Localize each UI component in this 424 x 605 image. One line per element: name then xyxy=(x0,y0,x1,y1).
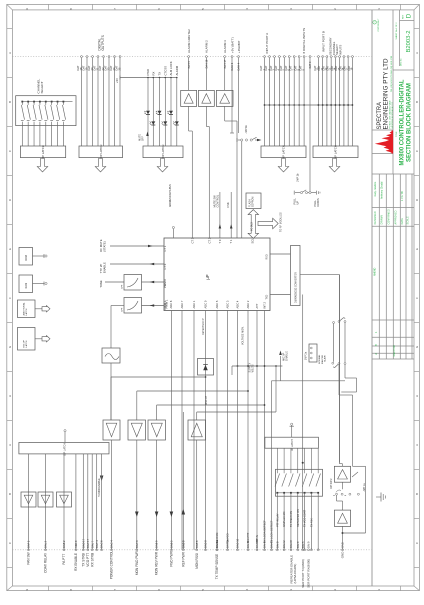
svg-text:DISC I/P: DISC I/P xyxy=(205,395,208,405)
svg-text:WESTERN AUSTRALIA 6155: WESTERN AUSTRALIA 6155 xyxy=(391,101,394,128)
svg-text:FAN SW: FAN SW xyxy=(27,552,31,564)
svg-text:SELECT: SELECT xyxy=(40,81,44,93)
svg-text:TX STRB: TX STRB xyxy=(81,553,85,566)
svg-text:ADC 3: ADC 3 xyxy=(226,300,230,308)
svg-text:DRAWN: DRAWN xyxy=(381,215,384,225)
svg-text:ADC 1: ADC 1 xyxy=(192,300,196,308)
svg-text:DAI 5: DAI 5 xyxy=(301,541,305,548)
svg-text:DAH 3: DAH 3 xyxy=(230,62,234,70)
svg-text:SKD 9: SKD 9 xyxy=(74,540,78,548)
svg-text:8 DIGITAL INPUTS: 8 DIGITAL INPUTS xyxy=(302,28,306,54)
svg-text:JMP 1b: JMP 1b xyxy=(245,124,248,133)
svg-text:ADC 0: ADC 0 xyxy=(204,300,208,308)
svg-text:INPUTS: INPUTS xyxy=(339,45,343,55)
svg-text:T 1: T 1 xyxy=(229,239,233,243)
svg-text:MIC I/P: MIC I/P xyxy=(24,340,26,348)
svg-text:REF PWR: REF PWR xyxy=(181,551,185,566)
svg-text:DAL 7: DAL 7 xyxy=(90,540,94,548)
svg-text:DAC 3: DAC 3 xyxy=(135,540,139,548)
svg-text:F: F xyxy=(415,297,419,299)
svg-text:DAD 16: DAD 16 xyxy=(236,538,240,548)
svg-text:SIMPLEX ON: SIMPLEX ON xyxy=(283,512,286,527)
svg-text:DAH 17: DAH 17 xyxy=(224,59,227,68)
svg-text:H: H xyxy=(8,395,12,397)
svg-text:TX MOD ENABLE: TX MOD ENABLE xyxy=(98,478,101,497)
svg-text:B: B xyxy=(415,101,419,103)
svg-text:CTCSS: CTCSS xyxy=(164,66,168,76)
svg-text:DAI 1a: DAI 1a xyxy=(215,540,219,548)
svg-text:DETECTED I/P: DETECTED I/P xyxy=(202,318,205,335)
svg-text:LATCH: LATCH xyxy=(25,308,28,315)
svg-text:MX800 CONTROLLER-DIGITAL: MX800 CONTROLLER-DIGITAL xyxy=(398,79,405,165)
svg-text:DAF 2: DAF 2 xyxy=(27,540,31,548)
svg-text:ADDRESS/DATA BUS: ADDRESS/DATA BUS xyxy=(169,184,172,207)
svg-text:SER PORT TX(9600): SER PORT TX(9600) xyxy=(301,559,305,588)
svg-text:DESIGNED: DESIGNED xyxy=(374,211,377,224)
svg-text:DAB 2: DAB 2 xyxy=(62,540,66,548)
svg-text:DAC 6: DAC 6 xyxy=(100,540,104,548)
svg-text:A: A xyxy=(415,52,419,54)
svg-text:I/P LATCH: I/P LATCH xyxy=(334,145,338,158)
svg-text:H: H xyxy=(415,395,419,397)
svg-text:ADC 6: ADC 6 xyxy=(169,300,173,308)
svg-text:VCO PTT: VCO PTT xyxy=(86,553,90,567)
svg-text:TX FSK: TX FSK xyxy=(310,518,313,527)
svg-text:FSK: FSK xyxy=(226,202,230,207)
svg-text:B: B xyxy=(8,493,12,495)
svg-text:DAS 16: DAS 16 xyxy=(255,539,259,548)
svg-text:COPYRIGHT: COPYRIGHT xyxy=(378,18,380,32)
svg-text:+5V (BATT): +5V (BATT) xyxy=(230,37,234,53)
svg-text:DAC 4: DAC 4 xyxy=(95,540,99,548)
svg-text:ALARM 2: ALARM 2 xyxy=(205,40,209,53)
svg-text:APPROVED: APPROVED xyxy=(395,210,398,224)
svg-text:OFF: OFF xyxy=(141,136,144,141)
svg-text:µP: µP xyxy=(205,274,210,279)
svg-text:JMP 2a: JMP 2a xyxy=(305,351,308,360)
svg-text:E: E xyxy=(415,248,419,250)
svg-text:FWD PWR: FWD PWR xyxy=(170,550,174,566)
svg-text:RX ENABLE: RX ENABLE xyxy=(74,553,78,571)
svg-text:DAT 0: DAT 0 xyxy=(309,61,312,68)
svg-text:A: A xyxy=(415,444,419,446)
svg-text:MIC PTT: MIC PTT xyxy=(246,532,250,543)
svg-text:INPUT PORT A: INPUT PORT A xyxy=(265,33,269,54)
svg-text:JMP 1b: JMP 1b xyxy=(297,173,300,182)
svg-text:DAD 17: DAD 17 xyxy=(81,538,85,548)
svg-text:Date 9 Drn: Date 9 Drn xyxy=(393,344,396,356)
svg-text:SER PORT RX(9600): SER PORT RX(9600) xyxy=(307,559,311,588)
svg-text:POWER CONTROL: POWER CONTROL xyxy=(110,551,114,580)
svg-text:TONE: TONE xyxy=(99,280,103,288)
svg-text:DAH 4: DAH 4 xyxy=(237,62,241,70)
svg-text:TX VCO CONT: TX VCO CONT xyxy=(304,509,307,527)
svg-text:DAI 9: DAI 9 xyxy=(307,541,311,548)
svg-text:REV: REV xyxy=(402,14,404,19)
svg-text:DAC 4: DAC 4 xyxy=(110,540,114,548)
svg-text:DRG No: DRG No xyxy=(400,58,402,66)
svg-text:DAD 8: DAD 8 xyxy=(204,540,208,548)
svg-text:DAH 1: DAH 1 xyxy=(270,540,274,548)
svg-text:VOLTS: VOLTS xyxy=(251,364,254,372)
svg-text:I/P LATCH: I/P LATCH xyxy=(291,439,294,451)
svg-text:1 / 9 / 96: 1 / 9 / 96 xyxy=(401,191,404,201)
svg-text:RX STRB: RX STRB xyxy=(90,553,94,567)
svg-text:O/P LATCH: O/P LATCH xyxy=(161,145,165,160)
svg-text:A: A xyxy=(8,444,12,446)
svg-text:DAH 8: DAH 8 xyxy=(289,540,293,548)
svg-text:ADC 2: ADC 2 xyxy=(246,300,250,308)
svg-text:TX: TX xyxy=(158,72,162,76)
svg-text:ROM: ROM xyxy=(25,255,28,261)
svg-text:O/P LATCH: O/P LATCH xyxy=(99,145,103,160)
svg-text:B2003-2: B2003-2 xyxy=(406,30,412,52)
svg-text:DMX9600/232 CONVERTER: DMX9600/232 CONVERTER xyxy=(295,272,298,303)
svg-text:F: F xyxy=(8,297,12,299)
svg-text:(STATE): (STATE) xyxy=(102,241,106,252)
svg-text:DAH 2: DAH 2 xyxy=(282,540,286,548)
svg-text:NORMAL: NORMAL xyxy=(318,354,321,364)
svg-text:DAI 3: DAI 3 xyxy=(296,541,300,548)
svg-text:RXD: RXD xyxy=(266,254,269,259)
svg-text:ALARM: ALARM xyxy=(175,65,179,75)
svg-text:T 0: T 0 xyxy=(218,239,222,243)
svg-text:SHEET No 2 OF 2: SHEET No 2 OF 2 xyxy=(396,22,398,40)
svg-text:MON REV PWR: MON REV PWR xyxy=(155,551,159,575)
svg-text:ADC 7: ADC 7 xyxy=(180,300,184,308)
svg-text:AMEND: AMEND xyxy=(374,267,377,276)
svg-text:DAI 8: DAI 8 xyxy=(275,541,279,548)
svg-text:(UPS/LOGON): (UPS/LOGON) xyxy=(293,564,297,584)
svg-text:CONTROL: CONTROL xyxy=(216,194,220,207)
svg-text:+5V: +5V xyxy=(115,78,119,83)
svg-text:PWR: PWR xyxy=(146,69,150,76)
svg-text:B: B xyxy=(415,493,419,495)
svg-text:DAB 8: DAB 8 xyxy=(181,540,185,548)
svg-text:DAI 6: DAI 6 xyxy=(263,541,267,548)
svg-text:Anthony Chadd: Anthony Chadd xyxy=(381,181,384,199)
svg-text:Gary Jandzio: Gary Jandzio xyxy=(374,181,377,196)
svg-text:D: D xyxy=(406,13,413,18)
svg-text:CT 2: CT 2 xyxy=(207,237,211,243)
svg-text:CONFIRMED: CONFIRMED xyxy=(388,209,391,224)
svg-text:ALM LOCK: ALM LOCK xyxy=(169,61,173,75)
svg-text:PWM 0: PWM 0 xyxy=(163,279,167,288)
svg-text:DAB 6: DAB 6 xyxy=(195,540,199,548)
svg-text:GND: GND xyxy=(341,551,345,559)
svg-text:ADC 4: ADC 4 xyxy=(236,300,240,308)
svg-text:I/P LATCH: I/P LATCH xyxy=(41,145,45,158)
svg-text:SECTION BLOCK DIAGRAM: SECTION BLOCK DIAGRAM xyxy=(406,83,413,162)
svg-text:B: B xyxy=(8,101,12,103)
svg-text:DAH 16: DAH 16 xyxy=(205,59,208,68)
svg-text:ALARM 3: ALARM 3 xyxy=(223,40,227,53)
svg-text:VOLTAGE MON.: VOLTAGE MON. xyxy=(242,326,245,345)
svg-text:REPEATER ON: REPEATER ON xyxy=(297,509,300,527)
svg-text:ENABLE: ENABLE xyxy=(285,351,288,361)
svg-text:DATE: DATE xyxy=(401,218,404,225)
svg-text:DOWN: DOWN xyxy=(316,198,320,206)
svg-text:EEPROM: EEPROM xyxy=(251,197,254,207)
svg-text:ADC 5: ADC 5 xyxy=(215,300,219,308)
svg-text:TXD: TXD xyxy=(266,294,269,299)
svg-text:DIP SW 2: DIP SW 2 xyxy=(330,478,333,489)
svg-text:PWM 1: PWM 1 xyxy=(165,299,169,308)
svg-text:TO RF MODULES: TO RF MODULES xyxy=(280,212,283,232)
svg-text:TX TIMER ON: TX TIMER ON xyxy=(290,511,293,527)
svg-text:DAT 1a: DAT 1a xyxy=(226,539,230,548)
svg-text:UP: UP xyxy=(296,201,300,205)
svg-text:SLAVE: SLAVE xyxy=(324,355,327,362)
svg-text:MON FWD PWR: MON FWD PWR xyxy=(135,551,139,576)
svg-text:DAC 17: DAC 17 xyxy=(86,538,90,548)
svg-text:TEL (08) 9418 6755 FAX (08) 9: TEL (08) 9418 6755 FAX (08) 9418 6788 xyxy=(390,55,393,92)
svg-text:LATCH: LATCH xyxy=(25,340,28,347)
svg-text:+INHIBIT: +INHIBIT xyxy=(237,40,241,53)
svg-text:I²C BUS: I²C BUS xyxy=(250,222,253,231)
svg-text:ENABLE: ENABLE xyxy=(102,262,106,273)
svg-text:DAH 5: DAH 5 xyxy=(188,61,191,69)
svg-text:ENGINEERING PTY LTD: ENGINEERING PTY LTD xyxy=(383,58,390,129)
svg-text:E: E xyxy=(8,248,12,250)
svg-text:PA PTT: PA PTT xyxy=(62,554,66,565)
svg-text:ATT: ATT xyxy=(255,303,259,308)
svg-text:RX: RX xyxy=(152,71,156,75)
svg-text:A: A xyxy=(8,52,12,54)
svg-text:COAX RELAY: COAX RELAY xyxy=(44,552,48,573)
svg-text:INPUT PORT B: INPUT PORT B xyxy=(321,31,325,52)
svg-text:RAM: RAM xyxy=(25,283,28,289)
svg-text:MASTER: MASTER xyxy=(321,354,324,364)
svg-text:RX LGON DETECT: RX LGON DETECT xyxy=(263,520,267,543)
svg-text:I/P LATCH: I/P LATCH xyxy=(282,145,286,158)
svg-text:ADDITIONAL: ADDITIONAL xyxy=(23,302,26,316)
svg-text:DAL 2: DAL 2 xyxy=(44,540,48,548)
svg-text:DAB 5: DAB 5 xyxy=(170,540,174,548)
svg-text:DAI 5: DAI 5 xyxy=(246,541,250,548)
svg-text:CT 3: CT 3 xyxy=(190,237,194,243)
svg-text:ALARM 1/MUTE2: ALARM 1/MUTE2 xyxy=(187,29,191,53)
svg-text:MON RSSI: MON RSSI xyxy=(195,553,199,569)
svg-text:INT 2: INT 2 xyxy=(263,301,267,308)
svg-text:DAB 9: DAB 9 xyxy=(155,540,159,548)
svg-text:PTT RELAY: PTT RELAY xyxy=(276,513,279,527)
svg-text:OUTPUTS: OUTPUTS xyxy=(101,35,105,50)
svg-text:TX TEMP SENSE: TX TEMP SENSE xyxy=(215,554,219,579)
svg-text:B: B xyxy=(374,344,378,346)
svg-text:SCALE: SCALE xyxy=(407,216,410,225)
